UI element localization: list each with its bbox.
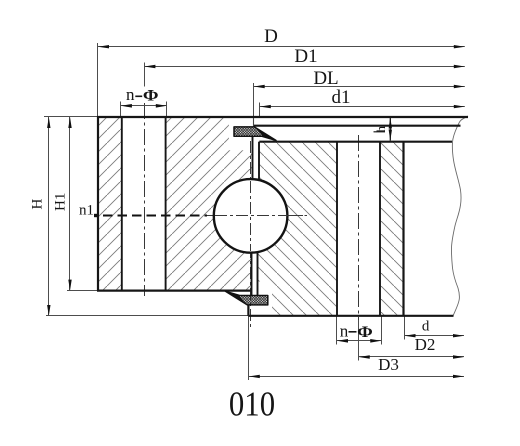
svg-text:D3: D3: [378, 355, 399, 374]
svg-text:n: n: [126, 85, 135, 104]
svg-text:DL: DL: [313, 68, 338, 89]
svg-text:010: 010: [229, 386, 275, 424]
svg-text:H: H: [30, 199, 46, 210]
svg-text:D1: D1: [294, 46, 317, 67]
svg-text:d1: d1: [332, 87, 351, 108]
svg-text:D: D: [264, 26, 278, 47]
svg-text:n1: n1: [79, 203, 94, 219]
svg-text:H1: H1: [53, 193, 69, 211]
svg-text:Φ: Φ: [143, 86, 159, 104]
svg-text:n: n: [340, 322, 349, 341]
svg-text:Φ: Φ: [357, 322, 373, 340]
svg-text:d: d: [422, 319, 430, 335]
svg-text:D2: D2: [415, 335, 436, 354]
